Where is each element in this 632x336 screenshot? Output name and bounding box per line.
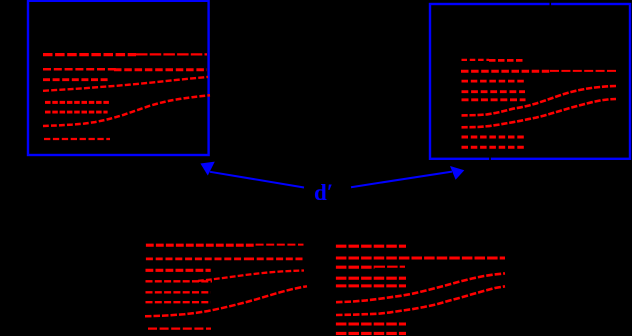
bottom-left plot row1 thick xyxy=(146,244,256,247)
top-left box sigmoid xyxy=(43,95,210,126)
bottom-right plot row3 xyxy=(336,266,375,269)
tick gap in bottom border xyxy=(489,157,491,162)
right arrow head xyxy=(450,166,464,180)
top-right box row3 xyxy=(462,80,526,83)
bottom-left plot row1 thin xyxy=(256,244,304,246)
top-left box curve 2 thick xyxy=(114,68,207,71)
bottom-left plot row2 thin xyxy=(146,258,247,261)
bottom-left plot curve A xyxy=(198,271,304,281)
right arrow shaft xyxy=(351,172,452,188)
top-right blue box xyxy=(430,4,630,159)
left arrow head xyxy=(200,162,214,176)
bottom-right plot row6 xyxy=(336,322,406,325)
bottom-right plot row7 xyxy=(336,332,406,335)
top-left box curve 1 thin tail xyxy=(136,53,207,55)
bottom-right plot upper sigmoid xyxy=(336,273,505,302)
bottom-left plot row5 xyxy=(146,291,211,293)
top-right box lower sigmoid xyxy=(462,99,617,127)
bottom-right plot row1 xyxy=(336,245,406,248)
top-right box upper sigmoid xyxy=(462,86,617,115)
bottom-left plot bottom row xyxy=(148,327,211,329)
top-left box curve 3 rising xyxy=(43,77,208,91)
top-left box short line A xyxy=(45,101,110,104)
bottom-left plot row2 thick xyxy=(247,258,304,261)
bottom-right plot row5 xyxy=(336,284,406,287)
top-left box curve 1 thick xyxy=(43,53,136,56)
left arrow shaft xyxy=(210,172,304,188)
top-left box bottom short line xyxy=(44,138,110,140)
top-right box row2 long xyxy=(461,70,550,73)
bottom-left plot row4 xyxy=(146,280,213,282)
bottom-left plot sigmoid xyxy=(145,286,307,316)
d-prime label xyxy=(314,181,333,204)
bottom-right plot lower sigmoid xyxy=(336,286,505,315)
top-right box row1 xyxy=(462,59,490,61)
tick gap in top border xyxy=(550,2,552,7)
top-right box row6 xyxy=(462,136,526,139)
bottom-left plot row3 xyxy=(146,269,211,272)
top-left box curve 2 thin xyxy=(43,68,118,71)
top-left box short line B xyxy=(45,111,108,114)
bottom-right plot row4 xyxy=(336,277,406,280)
top-right box row7 xyxy=(462,146,526,149)
top-right box row4 xyxy=(462,90,526,93)
top-right box row5 xyxy=(462,98,526,101)
bottom-right plot row2 long xyxy=(336,257,505,260)
bottom-left plot row6 xyxy=(146,301,211,303)
top-left box curve 3 asymptote xyxy=(43,78,110,81)
top-left blue box xyxy=(28,1,209,155)
